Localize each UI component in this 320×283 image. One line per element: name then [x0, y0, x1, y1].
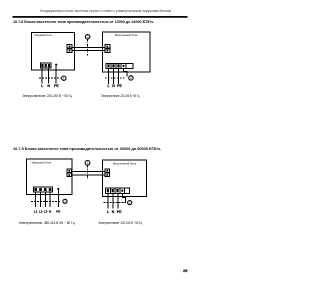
svg-text:PE: PE — [117, 84, 122, 88]
svg-text:PE: PE — [56, 210, 60, 214]
svg-text:L1: L1 — [34, 210, 38, 214]
svg-text:L3: L3 — [44, 210, 48, 214]
svg-text:Внутренний блок: Внутренний блок — [115, 33, 138, 37]
svg-text:1: 1 — [64, 200, 66, 204]
svg-text:Электропитание: 220-240 В ~50: Электропитание: 220-240 В ~50 Гц — [101, 94, 139, 98]
svg-text:2: 2 — [130, 76, 132, 80]
svg-text:Электропитание: 380-415 В 3N ~: Электропитание: 380-415 В 3N ~ 50 Гц — [19, 221, 75, 225]
svg-text:PE: PE — [117, 210, 122, 214]
svg-text:10.7.9 Блоки кассетного типа п: 10.7.9 Блоки кассетного типа производите… — [13, 147, 161, 151]
svg-text:Наружный блок: Наружный блок — [32, 160, 52, 164]
svg-text:Электропитание: 220-240 В ~50: Электропитание: 220-240 В ~50 Гц — [98, 221, 142, 225]
svg-text:PE: PE — [54, 84, 59, 88]
svg-text:Наружный блок: Наружный блок — [34, 33, 52, 37]
svg-text:10.7.8 Блоки кассетного типа п: 10.7.8 Блоки кассетного типа производите… — [13, 20, 154, 24]
svg-text:Кондиционеры сплит-системы сер: Кондиционеры сплит-системы серии U-match… — [40, 8, 171, 13]
svg-text:Внутренний блок: Внутренний блок — [113, 162, 136, 166]
svg-text:3: 3 — [87, 35, 89, 39]
svg-text:Электропитание: 220-240 В ~ 50: Электропитание: 220-240 В ~ 50 Гц — [22, 94, 72, 98]
svg-text:L2: L2 — [39, 210, 43, 214]
svg-text:2: 2 — [129, 201, 131, 205]
svg-text:29: 29 — [183, 268, 188, 273]
svg-text:3: 3 — [87, 161, 89, 165]
svg-text:1: 1 — [63, 76, 65, 80]
